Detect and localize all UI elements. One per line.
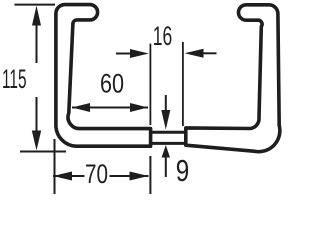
16 right arrowhead [185, 49, 204, 58]
svg-text:70: 70 [85, 159, 108, 189]
svg-text:16: 16 [153, 21, 173, 51]
60 dimension line [72, 107, 148, 109]
70 left extension line [54, 139, 56, 194]
115 arrowhead down [32, 131, 41, 151]
right handle outline [186, 5, 280, 152]
16 right extension line [182, 42, 184, 126]
60 arrowhead right [130, 103, 148, 112]
115 bottom extension line [20, 151, 66, 153]
left handle outline [56, 5, 151, 147]
70 right extension line [149, 156, 151, 194]
115 dimension stem upper [36, 24, 38, 63]
16 left extension line [149, 44, 151, 125]
svg-text:115: 115 [2, 64, 27, 94]
9 down arrow stem [165, 95, 167, 111]
115 arrowhead up [32, 6, 41, 26]
svg-text:60: 60 [100, 69, 124, 99]
spindle block top edge [151, 131, 184, 134]
70 arrowhead left [53, 172, 72, 181]
spindle block bottom edge [151, 142, 184, 145]
16 left arrowhead [130, 49, 149, 58]
svg-text:9: 9 [176, 153, 190, 188]
70 arrowhead right [130, 172, 149, 181]
115 top extension line [15, 4, 56, 6]
60 arrowhead left [72, 103, 90, 112]
16 right arrow stem [203, 52, 217, 54]
9 down arrowhead [161, 110, 170, 130]
16 left arrow stem [116, 53, 131, 55]
9 up arrowhead [162, 145, 170, 158]
70 dimension line right segment [110, 175, 149, 177]
70 dimension line left segment [53, 175, 85, 177]
9 up arrow stem [165, 154, 167, 177]
115 dimension stem lower [36, 97, 38, 131]
